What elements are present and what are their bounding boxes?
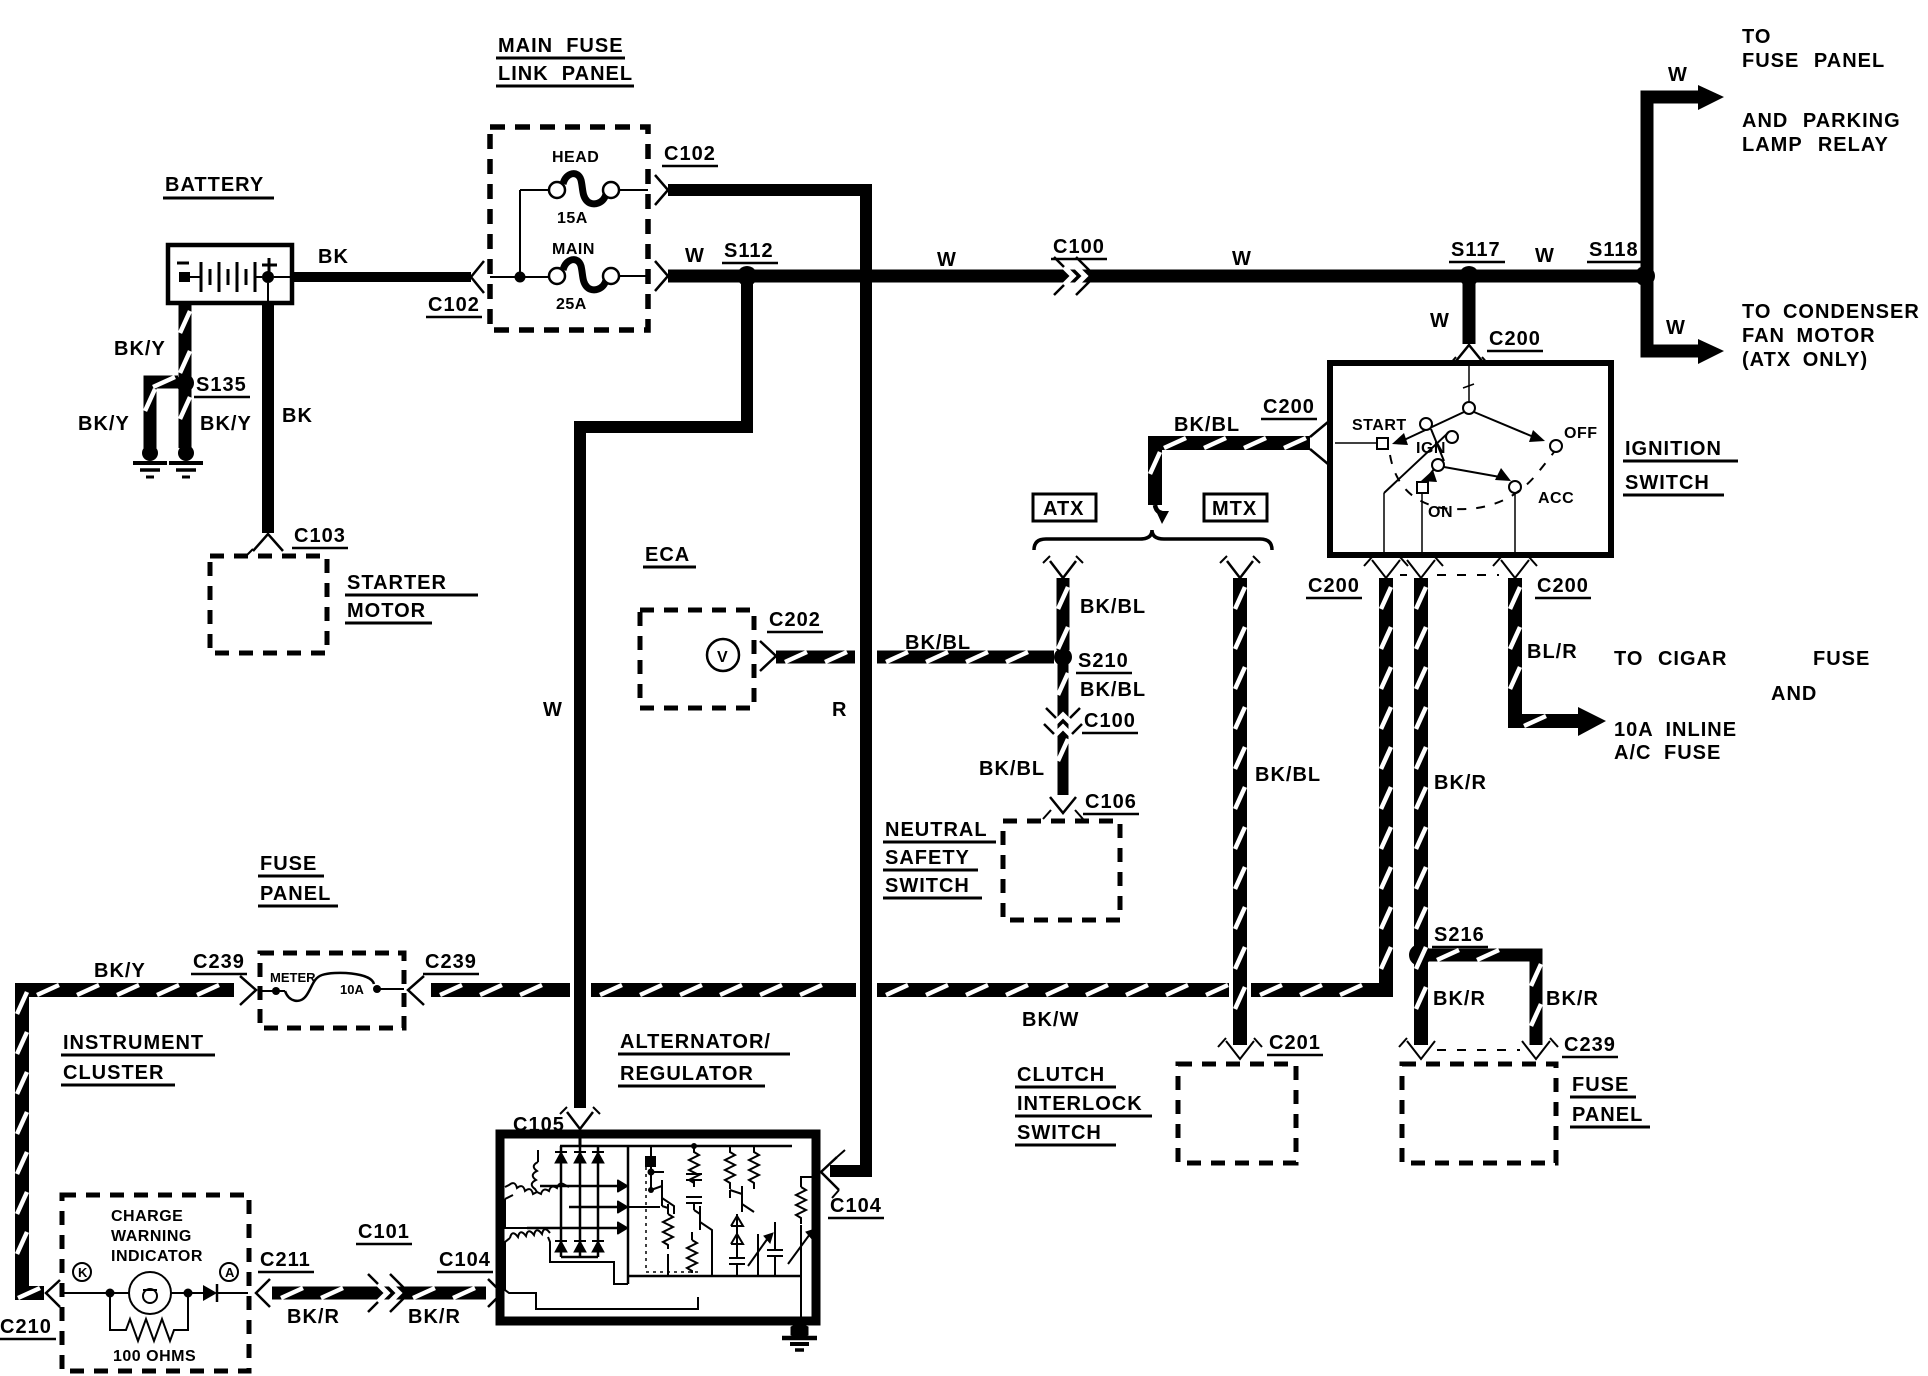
svg-text:BK/Y: BK/Y: [114, 338, 166, 360]
svg-text:W: W: [1535, 245, 1555, 267]
neutral safety switch box: [1003, 821, 1120, 920]
svg-text:INTERLOCK: INTERLOCK: [1017, 1093, 1143, 1115]
regulator top bus: [628, 1145, 792, 1148]
main fuse link panel box: [490, 127, 648, 330]
svg-text:C200: C200: [1489, 328, 1541, 350]
svg-text:15A: 15A: [557, 210, 588, 227]
svg-text:C100: C100: [1084, 710, 1136, 732]
svg-text:10A INLINE: 10A INLINE: [1614, 719, 1737, 741]
svg-text:BK/R: BK/R: [1434, 772, 1487, 794]
svg-text:BK/BL: BK/BL: [979, 758, 1045, 780]
starter motor box: [210, 556, 327, 653]
capacitor C1: [686, 1174, 702, 1187]
svg-text:C104: C104: [439, 1249, 491, 1271]
svg-text:SWITCH: SWITCH: [1017, 1122, 1102, 1144]
svg-text:A: A: [225, 1265, 235, 1280]
connector C102 main output: [655, 261, 668, 291]
svg-text:W: W: [685, 245, 705, 267]
wire BK/R S216 right branch: [1428, 949, 1536, 962]
capacitor C3: [729, 1251, 745, 1276]
svg-text:ACC: ACC: [1538, 490, 1574, 507]
ground left: [142, 445, 158, 461]
svg-text:C200: C200: [1263, 396, 1315, 418]
svg-text:OFF: OFF: [1564, 425, 1598, 442]
transistor Q3: [730, 1186, 754, 1212]
svg-text:AND PARKING: AND PARKING: [1742, 110, 1901, 132]
bottom left wiring: [505, 1256, 698, 1309]
charge warning indicator box: [62, 1195, 249, 1371]
node S135: [176, 374, 194, 392]
node S117: [1459, 266, 1479, 286]
resistor R4 below Q1: [663, 1214, 673, 1249]
connector C101 (inline chevrons): [368, 1274, 409, 1312]
wire W S112 down-left to C105: [580, 276, 747, 1108]
svg-text:TO CIGAR: TO CIGAR: [1614, 648, 1727, 670]
interior dotted bias line: [645, 1160, 647, 1272]
svg-text:C100: C100: [1053, 236, 1105, 258]
svg-text:K: K: [78, 1265, 88, 1280]
contact drop wires: [1383, 493, 1385, 552]
resistor R7: [796, 1187, 806, 1224]
wire BK/Y S135 left branch: [150, 376, 178, 389]
svg-text:MTX: MTX: [1212, 498, 1257, 520]
resistor 100 ohms parallel: [110, 1297, 188, 1341]
svg-text:C101: C101: [358, 1221, 410, 1243]
internal: C105 drop to bridge top bus: [579, 1138, 582, 1146]
svg-text:BK/W: BK/W: [1022, 1009, 1079, 1031]
battery right terminal node: [255, 276, 262, 278]
bridge top bus: [560, 1145, 628, 1148]
svg-text:SWITCH: SWITCH: [1625, 472, 1710, 494]
svg-text:BK/BL: BK/BL: [1080, 596, 1146, 618]
transistor Q2: [694, 1206, 712, 1240]
svg-text:C103: C103: [294, 525, 346, 547]
svg-text:C239: C239: [425, 951, 477, 973]
svg-text:C239: C239: [193, 951, 245, 973]
svg-text:BK/Y: BK/Y: [94, 960, 146, 982]
svg-text:C104: C104: [830, 1195, 882, 1217]
node S210: [1054, 648, 1072, 666]
connector C201: [1226, 1041, 1254, 1059]
svg-text:S118: S118: [1589, 239, 1639, 261]
wire BK/R ignition to S216: [1414, 578, 1428, 1045]
ignition switch box: [1330, 363, 1611, 555]
connector C239 fuse panel right: [1522, 1041, 1550, 1059]
svg-text:W: W: [1666, 317, 1686, 339]
ignition pivot: [1468, 366, 1470, 402]
connector C106: [1050, 797, 1076, 813]
connector C239 fuse panel left: [1407, 1041, 1435, 1059]
diode bridge vertical legs: [560, 1146, 563, 1257]
svg-text:BK/R: BK/R: [1433, 988, 1486, 1010]
field winding: [510, 1229, 550, 1238]
variable resistor arrow 1: [748, 1238, 768, 1266]
svg-text:BK/BL: BK/BL: [905, 632, 971, 654]
svg-text:INDICATOR: INDICATOR: [111, 1248, 203, 1265]
svg-text:C202: C202: [769, 609, 821, 631]
connector C200 left of ignition: [1310, 422, 1328, 464]
svg-text:S112: S112: [724, 240, 774, 262]
connector C103: [253, 534, 283, 551]
contact mid: [1432, 459, 1444, 471]
svg-text:TO: TO: [1742, 26, 1771, 48]
connector C100 (inline chevrons): [1054, 257, 1095, 295]
regulator bottom bus: [628, 1275, 801, 1278]
svg-text:C239: C239: [1564, 1034, 1616, 1056]
svg-text:MAIN: MAIN: [552, 241, 595, 258]
fuse panel box left: [260, 953, 404, 1028]
fuse link MAIN 25A: [490, 276, 550, 278]
svg-text:BK: BK: [282, 405, 313, 427]
wire BK/Y C210 riser to C239: [28, 983, 234, 997]
terminal K: [73, 1263, 91, 1281]
svg-text:FUSE: FUSE: [1572, 1074, 1629, 1096]
svg-text:R: R: [832, 699, 847, 721]
svg-text:W: W: [543, 699, 563, 721]
svg-text:BK/R: BK/R: [1546, 988, 1599, 1010]
connector C200 below left: [1372, 560, 1400, 578]
svg-text:AND: AND: [1771, 683, 1817, 705]
svg-text:C211: C211: [260, 1249, 311, 1271]
svg-text:TO CONDENSER: TO CONDENSER: [1742, 301, 1920, 323]
svg-text:V: V: [717, 649, 728, 666]
ECA box: [640, 610, 754, 708]
svg-text:A/C FUSE: A/C FUSE: [1614, 742, 1721, 764]
node S112: [737, 266, 757, 286]
dashed travel arc: [1390, 452, 1554, 509]
resistor R1: [689, 1146, 699, 1187]
wire BK/BL S210 down: [1058, 664, 1069, 795]
wire W S118 down to condenser fan arrow: [1647, 276, 1698, 351]
wire W main run C102 to S118: [668, 270, 1647, 283]
connector C211: [256, 1279, 270, 1307]
arrow hook to brace: [1155, 505, 1162, 513]
ignition arm to START: [1404, 412, 1464, 440]
wire BK battery to C103: [262, 302, 274, 533]
svg-text:S117: S117: [1451, 239, 1501, 261]
svg-text:C102: C102: [428, 294, 480, 316]
stator left leg: [505, 1195, 527, 1228]
svg-text:BK/BL: BK/BL: [1174, 414, 1240, 436]
connector MTX top: [1227, 561, 1253, 578]
svg-text:FUSE: FUSE: [1813, 648, 1870, 670]
svg-text:BATTERY: BATTERY: [165, 174, 264, 196]
connector C239 left: [240, 976, 256, 1005]
connector C104: [488, 1279, 502, 1307]
svg-text:C200: C200: [1308, 575, 1360, 597]
svg-text:HEAD: HEAD: [552, 149, 599, 166]
connector C200 at ignition top: [1456, 345, 1482, 361]
wire BK/W long run: [431, 983, 570, 997]
contact ACC: [1509, 481, 1521, 493]
dashed link between connectors: [1400, 574, 1407, 576]
arm mid to ACC: [1444, 467, 1500, 477]
svg-text:W: W: [1232, 248, 1252, 270]
svg-text:BK/Y: BK/Y: [200, 413, 252, 435]
MTX box: [1204, 494, 1267, 521]
svg-text:PANEL: PANEL: [1572, 1104, 1643, 1126]
svg-text:BK: BK: [318, 246, 349, 268]
ground right: [178, 445, 194, 461]
svg-text:BK/BL: BK/BL: [1255, 764, 1321, 786]
connector C210: [46, 1280, 60, 1307]
capacitor C2: [686, 1197, 702, 1210]
svg-text:BK/BL: BK/BL: [1080, 679, 1146, 701]
ignition arm to OFF: [1474, 412, 1536, 438]
wire BK/R C211 to C104: [272, 1287, 486, 1300]
svg-text:C210: C210: [0, 1316, 52, 1338]
svg-text:10A: 10A: [340, 982, 364, 997]
svg-text:25A: 25A: [556, 296, 587, 313]
svg-text:NEUTRAL: NEUTRAL: [885, 819, 988, 841]
wire BK/BL C200 to ATX/MTX brace: [1155, 436, 1310, 450]
svg-text:IGNITION: IGNITION: [1625, 438, 1722, 460]
svg-text:BL/R: BL/R: [1527, 641, 1578, 663]
fuse 10A: [260, 990, 285, 992]
resistor R5: [687, 1240, 697, 1273]
line IGN diagonal: [1384, 433, 1448, 493]
svg-text:C201: C201: [1269, 1032, 1321, 1054]
right vertical bus: [627, 1146, 630, 1284]
svg-text:WARNING: WARNING: [111, 1228, 192, 1245]
connector ATX top: [1050, 561, 1076, 578]
clutch interlock switch box: [1178, 1064, 1296, 1163]
svg-text:C106: C106: [1085, 791, 1137, 813]
svg-text:LINK PANEL: LINK PANEL: [498, 63, 633, 85]
svg-text:C102: C102: [664, 143, 716, 165]
svg-text:W: W: [1430, 310, 1450, 332]
internal junction node: [519, 190, 521, 277]
connector C102 battery side: [471, 261, 484, 293]
svg-text:100 OHMS: 100 OHMS: [113, 1348, 196, 1365]
alternator box: [500, 1134, 816, 1321]
svg-text:METER: METER: [270, 970, 316, 985]
svg-text:PANEL: PANEL: [260, 883, 331, 905]
wire R C102 to C104 (down the page): [668, 190, 866, 1171]
battery minus sign: [177, 262, 189, 265]
svg-text:ON: ON: [1428, 504, 1453, 521]
svg-text:START: START: [1352, 417, 1407, 434]
indicator lamp: [129, 1272, 171, 1314]
svg-text:BK/R: BK/R: [408, 1306, 461, 1328]
svg-text:ALTERNATOR/: ALTERNATOR/: [620, 1031, 771, 1053]
fuse panel box right: [1402, 1064, 1556, 1163]
svg-text:BK/Y: BK/Y: [78, 413, 130, 435]
connector C239 right: [408, 976, 424, 1005]
svg-text:C200: C200: [1537, 575, 1589, 597]
indicator wire: [64, 1292, 129, 1294]
svg-text:S210: S210: [1078, 650, 1129, 672]
node S216: [1409, 944, 1431, 966]
svg-text:MOTOR: MOTOR: [347, 600, 426, 622]
svg-text:ATX: ATX: [1043, 498, 1085, 520]
svg-text:INSTRUMENT: INSTRUMENT: [63, 1032, 204, 1054]
stator Y winding: [532, 1162, 538, 1192]
svg-text:FUSE PANEL: FUSE PANEL: [1742, 50, 1885, 72]
wire BK/Y battery to S135: [179, 302, 192, 378]
ATX box: [1033, 494, 1096, 521]
svg-text:FUSE: FUSE: [260, 853, 317, 875]
contact START: [1377, 438, 1388, 449]
wire BL/R ignition to AC fuse arrow: [1508, 578, 1522, 721]
svg-text:MAIN FUSE: MAIN FUSE: [498, 35, 624, 57]
svg-text:(ATX ONLY): (ATX ONLY): [1742, 349, 1868, 371]
transistor Q1: [651, 1180, 674, 1214]
phase tap lines with diodes: [540, 1185, 618, 1188]
zener chain: [731, 1214, 743, 1258]
right entry from C104: [801, 1177, 812, 1187]
wire W S118 up to fuse panel arrow: [1647, 97, 1698, 276]
bridge bottom bus: [561, 1256, 598, 1259]
svg-text:S216: S216: [1434, 924, 1485, 946]
battery B1 box: [168, 245, 292, 303]
svg-text:CHARGE: CHARGE: [111, 1208, 183, 1225]
contact OFF: [1550, 440, 1562, 452]
interior link lines: [628, 1206, 660, 1208]
connector C105 at alternator top: [567, 1112, 593, 1129]
bridge diodes bottom: [555, 1241, 567, 1252]
diode: [192, 1292, 203, 1294]
svg-text:CLUTCH: CLUTCH: [1017, 1064, 1105, 1086]
fuse link HEAD 15A: [520, 189, 550, 191]
wire BK/BL ignition to BK/W run: [1379, 578, 1393, 990]
resistor R3: [749, 1146, 759, 1189]
hatch slashes overlay: [17, 311, 1546, 1298]
contact small: [1446, 431, 1458, 443]
battery plates: [200, 262, 203, 292]
svg-text:FAN MOTOR: FAN MOTOR: [1742, 325, 1876, 347]
contact ON: [1417, 482, 1428, 493]
resistor R2: [725, 1146, 735, 1189]
connector C104 right of alternator: [821, 1157, 839, 1190]
ECA V meter: [707, 639, 739, 671]
wire BK battery to C102: [292, 272, 471, 282]
battery plus sign: [262, 264, 277, 267]
brace: [1034, 530, 1272, 550]
svg-text:W: W: [937, 249, 957, 271]
arm to ON: [1428, 469, 1434, 477]
svg-text:ECA: ECA: [645, 544, 690, 566]
capacitor C4: [767, 1240, 783, 1276]
svg-text:SAFETY: SAFETY: [885, 847, 970, 869]
wire BK/BL MTX to C201: [1233, 578, 1247, 1045]
wire BK/BL ATX to S210: [1057, 578, 1070, 650]
svg-text:CLUSTER: CLUSTER: [63, 1062, 164, 1084]
diode block left branch: [650, 1146, 652, 1190]
svg-text:BK/R: BK/R: [287, 1306, 340, 1328]
bridge diodes top: [555, 1152, 567, 1163]
connector C100 (vertical chevrons): [1044, 708, 1082, 738]
svg-text:S135: S135: [196, 374, 247, 396]
ground at alternator: [791, 1323, 808, 1339]
wire BK/BL ECA to S210: [776, 651, 855, 664]
svg-text:REGULATOR: REGULATOR: [620, 1063, 754, 1085]
wire BK/Y S135 to ground: [179, 388, 192, 448]
contact IGN: [1420, 418, 1432, 430]
connector C200 below mid: [1407, 560, 1435, 578]
svg-text:W: W: [1668, 64, 1688, 86]
wire W S117 down to ignition switch: [1463, 276, 1476, 344]
connector C200 below right: [1501, 560, 1529, 578]
terminal A: [220, 1263, 238, 1281]
node S118: [1635, 266, 1655, 286]
svg-text:SWITCH: SWITCH: [885, 875, 970, 897]
svg-text:STARTER: STARTER: [347, 572, 447, 594]
svg-text:LAMP RELAY: LAMP RELAY: [1742, 134, 1889, 156]
battery left terminal: [179, 272, 190, 282]
variable resistor arrow 2: [788, 1234, 810, 1264]
connector C202: [760, 641, 776, 671]
connector C102 head output: [655, 175, 668, 205]
